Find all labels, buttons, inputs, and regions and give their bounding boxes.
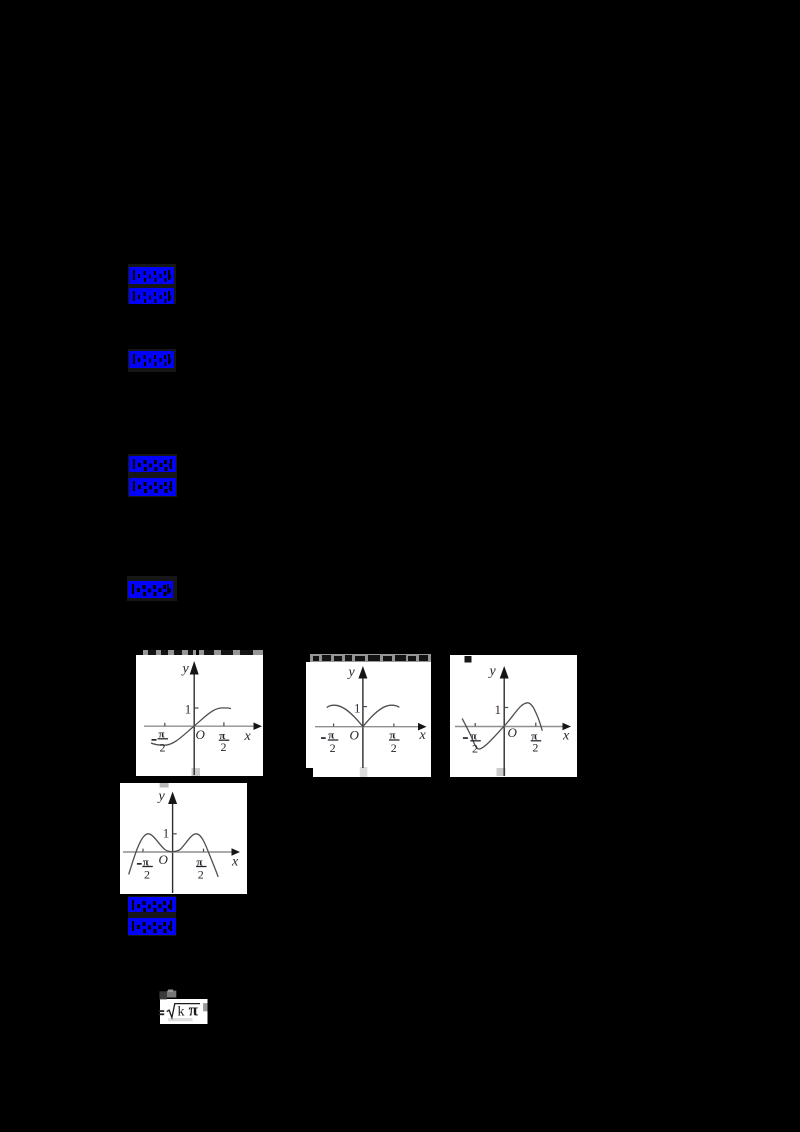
svg-text:2: 2 <box>472 742 478 756</box>
svg-text:x: x <box>562 729 570 744</box>
svg-text:1: 1 <box>495 702 502 717</box>
label L6 <box>128 581 173 598</box>
svg-text:k: k <box>178 1004 185 1019</box>
label group 4 background <box>127 576 177 601</box>
svg-text:2: 2 <box>221 740 227 754</box>
svg-text:2: 2 <box>144 868 150 882</box>
svg-text:2: 2 <box>532 741 538 755</box>
svg-text:O: O <box>159 852 169 867</box>
formula image sqrt(k pi) <box>155 985 213 1030</box>
svg-text:2: 2 <box>198 868 204 882</box>
svg-text:O: O <box>350 728 360 743</box>
graph image 1 : y=sin x <box>136 655 263 776</box>
svg-text:x: x <box>419 728 427 743</box>
svg-text:O: O <box>508 725 518 740</box>
label L8 <box>128 918 176 935</box>
svg-text:1: 1 <box>185 702 192 717</box>
graph image 2 : y=|sin x| <box>306 662 431 777</box>
label L5 <box>129 478 176 496</box>
caption strip above graph 1 <box>143 650 196 656</box>
svg-text:y: y <box>347 665 356 680</box>
label group 5 background <box>128 896 177 936</box>
svg-text:x: x <box>231 855 239 870</box>
label group 2 background <box>128 349 177 372</box>
svg-text:y: y <box>157 789 166 804</box>
graph image 4 : two humps <box>120 783 247 894</box>
label L1 <box>129 267 175 284</box>
svg-text:π: π <box>189 1001 199 1020</box>
svg-text:2: 2 <box>330 741 336 755</box>
label L7 <box>128 897 176 912</box>
svg-text:2: 2 <box>160 741 166 755</box>
svg-text:2: 2 <box>391 741 397 755</box>
graph image 3 : tilted sine <box>450 655 577 777</box>
caption strip above graph 2 <box>310 654 431 663</box>
svg-text:1: 1 <box>354 701 361 716</box>
label L3 <box>129 351 174 368</box>
svg-text:y: y <box>488 664 497 679</box>
label L4 <box>129 456 176 473</box>
svg-text:1: 1 <box>163 826 170 841</box>
label group 1 background <box>128 264 177 304</box>
label group 3 background <box>128 454 177 498</box>
svg-text:O: O <box>196 727 206 742</box>
svg-text:x: x <box>244 729 252 744</box>
svg-text:y: y <box>181 662 190 677</box>
label L2 <box>129 288 175 304</box>
